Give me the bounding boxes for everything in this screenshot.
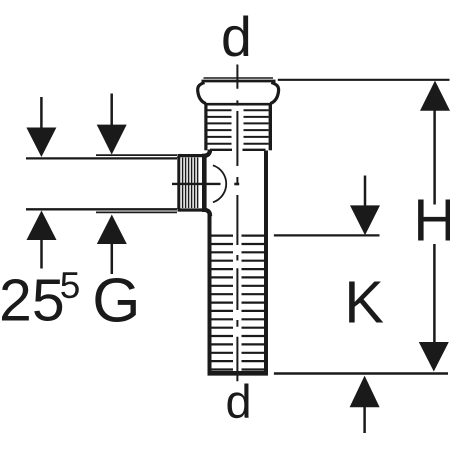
svg-text:K: K: [344, 269, 384, 336]
svg-text:5: 5: [60, 265, 81, 306]
svg-text:G: G: [92, 266, 140, 335]
svg-text:d: d: [221, 6, 252, 68]
svg-text:25: 25: [0, 268, 65, 334]
svg-text:d: d: [226, 375, 252, 428]
svg-text:H: H: [413, 188, 450, 254]
